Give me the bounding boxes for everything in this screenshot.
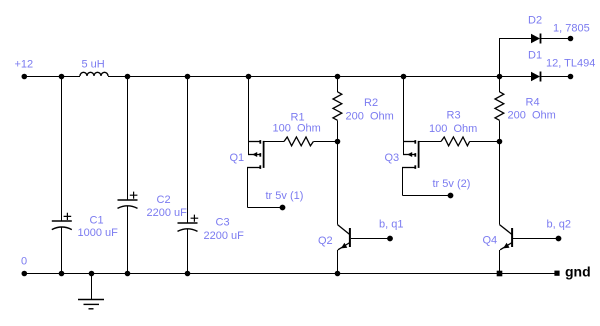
- transistor Q3 (MOSFET): [402, 140, 419, 169]
- svg-text:b, q1: b, q1: [379, 219, 403, 231]
- node B junction R3 R4: [497, 139, 503, 145]
- svg-text:D1: D1: [528, 50, 542, 62]
- svg-text:D2: D2: [528, 15, 542, 27]
- svg-text:2200 uF: 2200 uF: [147, 207, 188, 219]
- node junction bottom Q2: [335, 271, 341, 277]
- wire top rail after D1: [541, 76, 570, 78]
- svg-text:tr 5v (2): tr 5v (2): [433, 178, 471, 190]
- node A junction R1 R2: [335, 139, 341, 145]
- wire R1 to node A: [313, 141, 337, 143]
- wire ground stem: [91, 274, 93, 300]
- wire node B to Q4 collector: [499, 142, 501, 225]
- svg-text:tr 5v (1): tr 5v (1): [266, 190, 304, 202]
- svg-text:5 uH: 5 uH: [82, 59, 105, 71]
- wire C3 top: [187, 77, 189, 223]
- node junction rail Q3: [401, 74, 407, 80]
- node terminal 0: [22, 271, 28, 277]
- svg-text:C3: C3: [216, 217, 230, 229]
- node terminal b q2: [556, 236, 562, 242]
- svg-text:200 Ohm: 200 Ohm: [346, 111, 394, 123]
- node terminal gnd (square): [554, 271, 559, 276]
- wire Q4 emitter to bottom rail: [499, 250, 501, 274]
- wire Q4 base lead: [513, 238, 559, 240]
- svg-text:0: 0: [21, 256, 27, 268]
- transistor Q2 (BJT): [338, 225, 350, 250]
- node junction bottom C3: [185, 271, 191, 277]
- wire Q3 gate to R3: [419, 141, 441, 143]
- wire Q2 base lead: [351, 238, 390, 240]
- wire bottom rail: [24, 273, 557, 275]
- wire Q1 source to tr5v1 terminal: [248, 207, 283, 209]
- node junction rail R4: [497, 74, 503, 80]
- wire C1 bottom: [61, 228, 63, 274]
- svg-text:1, 7805: 1, 7805: [553, 23, 590, 35]
- node junction rail R2: [335, 74, 341, 80]
- svg-text:100 Ohm: 100 Ohm: [429, 123, 477, 135]
- wire Q1 gate to R1: [264, 141, 284, 143]
- node terminal tr5v1: [280, 205, 286, 211]
- svg-text:R2: R2: [364, 97, 378, 109]
- svg-text:Q1: Q1: [230, 152, 245, 164]
- svg-text:2200 uF: 2200 uF: [204, 230, 245, 242]
- capacitor C3: [178, 215, 199, 232]
- node terminal tr5v2: [448, 193, 454, 199]
- wire D2 to terminal: [541, 38, 570, 40]
- wire Q1 feed from rail: [248, 77, 250, 155]
- svg-text:b, q2: b, q2: [547, 219, 571, 231]
- wire R4 bottom lead to node B: [499, 120, 501, 141]
- wire Q3 feed from rail: [403, 77, 405, 155]
- wire D2 branch vertical: [499, 39, 501, 77]
- node junction rail C2: [125, 74, 131, 80]
- svg-text:1000 uF: 1000 uF: [78, 227, 119, 239]
- ground: [78, 300, 104, 309]
- node junction bottom C2: [125, 271, 131, 277]
- diode D1: [531, 72, 541, 82]
- svg-text:C2: C2: [157, 194, 171, 206]
- node junction bottom C1: [59, 271, 65, 277]
- wire D2 branch horizontal: [499, 38, 531, 40]
- svg-text:200 Ohm: 200 Ohm: [508, 110, 556, 122]
- wire Q2 emitter to bottom rail: [337, 250, 339, 274]
- wire R2 top lead: [337, 77, 339, 92]
- svg-text:Q3: Q3: [385, 152, 400, 164]
- node junction bottom Q4 (square): [497, 271, 503, 277]
- wire top rail main segment: [108, 76, 531, 78]
- node terminal b q1: [387, 236, 393, 242]
- svg-text:Q2: Q2: [318, 235, 333, 247]
- inductor L1 5 uH: [80, 72, 108, 76]
- resistor R3: [441, 137, 470, 146]
- wire top rail left segment: [24, 76, 80, 78]
- wire C1 top: [61, 77, 63, 221]
- svg-text:C1: C1: [90, 215, 104, 227]
- wire C3 bottom: [187, 229, 189, 273]
- node junction rail Q1: [246, 74, 252, 80]
- diode D2: [531, 34, 541, 44]
- node junction bottom ground: [89, 271, 95, 277]
- capacitor C1: [52, 213, 72, 230]
- node terminal D2 out: [568, 36, 574, 42]
- wire node A to Q2 collector: [337, 142, 339, 225]
- node terminal D1 out: [568, 74, 574, 80]
- wire Q3 source to tr5v2 terminal: [403, 195, 451, 197]
- wire Q1 source down: [247, 168, 249, 208]
- wire R4 top lead: [499, 77, 501, 92]
- transistor Q1 (MOSFET): [247, 140, 264, 169]
- node junction rail C3: [185, 74, 191, 80]
- wire Q3 source down: [402, 168, 404, 196]
- svg-text:12, TL494: 12, TL494: [546, 58, 595, 70]
- wire C2 bottom: [127, 206, 129, 273]
- capacitor C2: [118, 192, 138, 209]
- wire R3 to node B: [470, 141, 500, 143]
- resistor R2: [333, 92, 342, 121]
- transistor Q4 (BJT): [500, 225, 513, 250]
- wire R2 bottom lead to node A: [337, 120, 339, 141]
- svg-text:R3: R3: [447, 110, 461, 122]
- wire C2 top: [127, 77, 129, 200]
- svg-text:R4: R4: [526, 97, 540, 109]
- node terminal +12: [22, 74, 28, 80]
- svg-text:+12: +12: [15, 59, 34, 71]
- resistor R1: [284, 137, 313, 146]
- svg-text:Q4: Q4: [483, 235, 498, 247]
- resistor R4: [495, 92, 504, 121]
- svg-text:100 Ohm: 100 Ohm: [273, 123, 321, 135]
- svg-text:gnd: gnd: [565, 264, 591, 280]
- node junction rail C1: [59, 74, 65, 80]
